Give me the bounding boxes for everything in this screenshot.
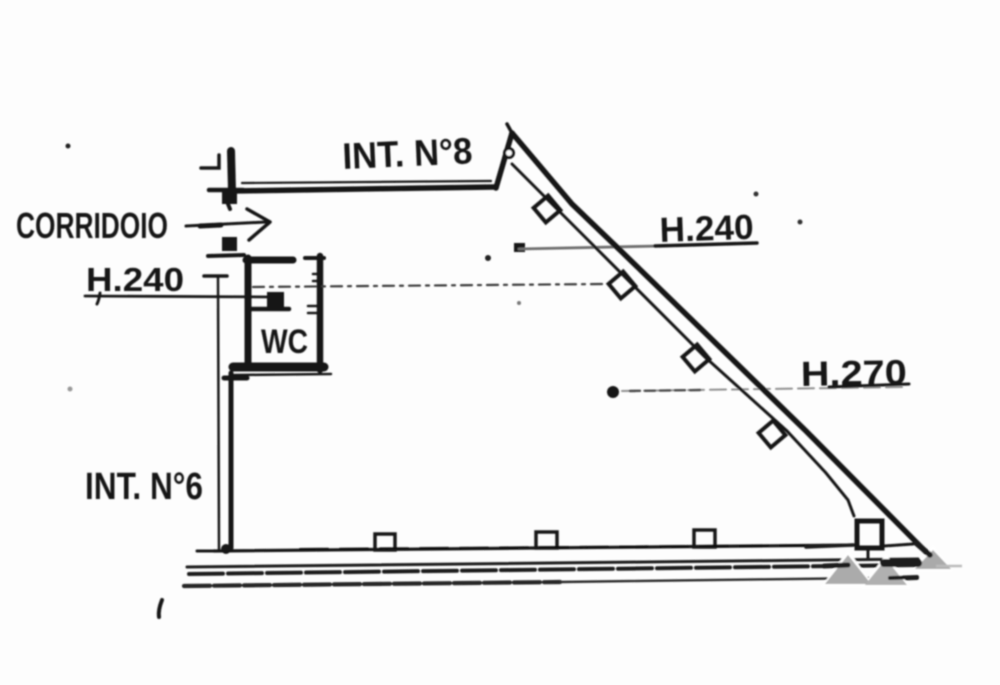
svg-text:H.240: H.240 [86,261,184,298]
svg-text:CORRIDOIO: CORRIDOIO [16,205,168,246]
svg-text:WC: WC [261,323,308,361]
svg-text:H.240: H.240 [659,208,754,250]
svg-text:H.270: H.270 [800,353,907,394]
svg-text:INT. N°8: INT. N°8 [342,130,474,177]
svg-text:INT. N°6: INT. N°6 [85,466,203,508]
